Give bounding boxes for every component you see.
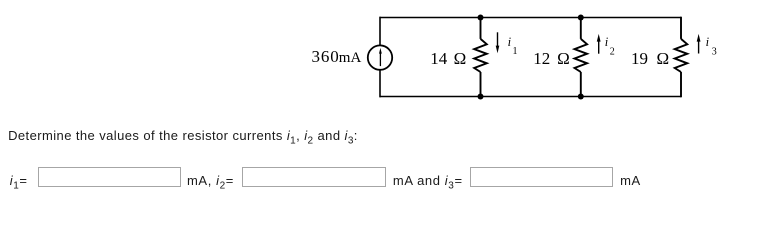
svg-text:14: 14 <box>430 49 448 68</box>
svg-text:12: 12 <box>533 49 550 68</box>
node junction dot bottom of R2 <box>578 94 584 100</box>
wire: top rail from left corner to right corner <box>380 17 682 19</box>
svg-text:Ω: Ω <box>454 49 467 68</box>
svg-text:i: i <box>508 35 512 49</box>
svg-text:1: 1 <box>513 46 518 57</box>
circuit schematic drawing <box>0 0 769 120</box>
wire: left edge lower segment (current source to bottom corner) <box>379 70 381 97</box>
label mA <box>620 173 641 188</box>
resistor R3 19 ohm (on right edge) <box>675 17 688 98</box>
label mA and i3= <box>393 173 463 188</box>
svg-text:i: i <box>706 35 710 49</box>
node junction dot top of R2 <box>578 15 584 21</box>
svg-text:Ω: Ω <box>657 49 670 68</box>
question text <box>8 128 358 143</box>
wire: left edge upper segment (top corner to current source) <box>379 17 381 46</box>
label i1= <box>10 173 28 188</box>
current arrow i2 (points up) <box>598 40 600 54</box>
node junction dot bottom of R1 <box>478 94 484 100</box>
svg-text:mA: mA <box>339 50 362 66</box>
svg-text:19: 19 <box>631 49 648 68</box>
wire: bottom rail from left corner to right corner <box>380 96 682 98</box>
svg-text:3: 3 <box>712 47 717 58</box>
svg-text:2: 2 <box>610 47 615 58</box>
input box 3 <box>470 167 613 187</box>
input box 2 <box>242 167 386 187</box>
label mA, i2= <box>187 173 234 188</box>
current source arrow (points up) <box>379 52 381 66</box>
current source I1 circle <box>368 45 392 69</box>
node junction dot top of R1 <box>478 15 484 21</box>
resistor R1 14 ohm <box>474 18 487 97</box>
svg-text:360: 360 <box>312 47 340 66</box>
current arrow i3 (points up) <box>698 40 700 54</box>
svg-text:Ω: Ω <box>557 49 570 68</box>
svg-text:i: i <box>605 35 609 49</box>
resistor R2 12 ohm <box>575 18 588 97</box>
current arrow i1 (points down) <box>497 32 499 47</box>
input box 1 <box>38 167 181 187</box>
